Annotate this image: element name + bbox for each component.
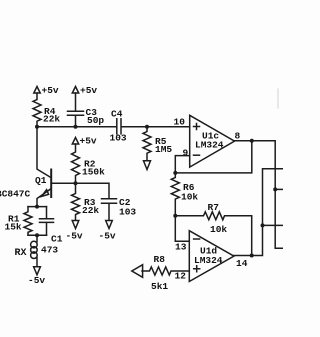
- svg-text:C1: C1: [51, 234, 63, 245]
- svg-text:Q1: Q1: [35, 175, 47, 186]
- svg-text:-5v: -5v: [99, 231, 116, 242]
- svg-text:1M5: 1M5: [155, 144, 172, 155]
- svg-text:LM324: LM324: [194, 255, 223, 266]
- svg-text:+5v: +5v: [80, 85, 97, 96]
- svg-text:R8: R8: [154, 254, 166, 265]
- svg-text:10k: 10k: [210, 224, 227, 235]
- svg-text:13: 13: [175, 242, 187, 253]
- svg-text:14: 14: [236, 258, 248, 269]
- svg-text:5k1: 5k1: [151, 281, 168, 292]
- svg-text:+5v: +5v: [80, 136, 97, 147]
- svg-text:BC847C: BC847C: [0, 189, 31, 200]
- svg-text:22k: 22k: [43, 114, 60, 125]
- svg-text:103: 103: [110, 133, 127, 144]
- svg-text:10: 10: [174, 117, 186, 128]
- svg-text:103: 103: [119, 207, 136, 218]
- svg-text:473: 473: [41, 245, 58, 256]
- svg-text:LM324: LM324: [195, 140, 224, 151]
- svg-text:50p: 50p: [87, 115, 104, 126]
- svg-text:12: 12: [175, 271, 187, 282]
- svg-text:C4: C4: [111, 109, 123, 120]
- svg-text:10k: 10k: [181, 192, 198, 203]
- svg-text:RX: RX: [15, 248, 27, 259]
- svg-text:8: 8: [235, 131, 241, 142]
- svg-text:22k: 22k: [82, 205, 99, 216]
- svg-text:-5v: -5v: [28, 275, 45, 286]
- svg-text:+5v: +5v: [42, 85, 59, 96]
- svg-text:R7: R7: [208, 202, 220, 213]
- svg-text:15k: 15k: [5, 222, 22, 233]
- svg-text:9: 9: [183, 148, 189, 159]
- svg-text:150k: 150k: [82, 167, 105, 178]
- svg-text:-5v: -5v: [66, 231, 83, 242]
